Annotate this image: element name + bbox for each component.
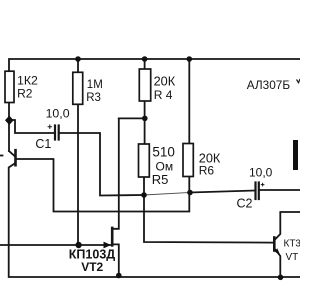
svg-text:20К: 20К	[154, 75, 176, 89]
svg-text:VТ: VТ	[286, 252, 299, 263]
svg-text:R3: R3	[86, 92, 101, 104]
svg-text:R5: R5	[152, 172, 169, 187]
svg-text:АЛ307Б: АЛ307Б	[247, 78, 291, 92]
svg-text:10,0: 10,0	[249, 166, 273, 180]
svg-text:КТ3: КТ3	[284, 239, 301, 250]
svg-text:510: 510	[152, 145, 175, 160]
svg-text:1К2: 1К2	[17, 74, 38, 88]
svg-text:R6: R6	[199, 164, 215, 178]
svg-text:R 4: R 4	[154, 88, 173, 102]
svg-text:С1: С1	[35, 137, 51, 151]
svg-text:1М: 1М	[87, 79, 103, 91]
svg-text:VT2: VT2	[81, 260, 103, 274]
svg-text:С2: С2	[237, 196, 253, 210]
svg-text:10,0: 10,0	[46, 107, 70, 121]
svg-text:R2: R2	[17, 86, 33, 100]
